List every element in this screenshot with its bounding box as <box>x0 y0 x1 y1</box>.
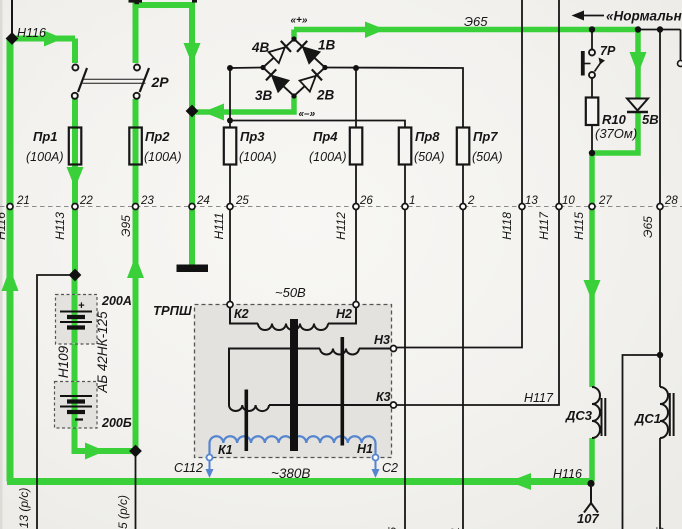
svg-text:Н116: Н116 <box>17 26 46 40</box>
arrow left on minus link <box>203 104 224 121</box>
node 25 <box>227 204 233 210</box>
svg-text:200Б: 200Б <box>101 416 132 430</box>
wire N116 top vertical (black) <box>11 0 13 39</box>
arrow down on 5V branch <box>630 52 647 74</box>
top cut component 2 <box>192 0 197 3</box>
junction dot 7P top <box>589 26 595 32</box>
wire N116 left vertical (green) <box>7 39 14 482</box>
svg-text:13: 13 <box>525 195 538 207</box>
svg-text:2Р: 2Р <box>151 74 170 90</box>
fuse Pr3 <box>224 128 237 165</box>
svg-text:Н116: Н116 <box>553 467 582 481</box>
svg-text:Пр3: Пр3 <box>240 129 265 144</box>
node 26 <box>353 204 359 210</box>
wire N118 vertical <box>397 0 523 348</box>
svg-text:С2: С2 <box>382 461 398 475</box>
svg-text:21: 21 <box>16 195 30 207</box>
connector 107 <box>584 484 598 513</box>
svg-text:Н117: Н117 <box>524 391 554 405</box>
arrow up on E95 <box>127 256 144 278</box>
node 10 <box>556 204 562 210</box>
svg-text:Пр2: Пр2 <box>145 129 170 144</box>
junction diamond N116 top <box>6 32 19 45</box>
terminal N3 <box>391 346 397 352</box>
bridge vertex dots <box>291 36 296 41</box>
resistor R10 <box>586 98 599 126</box>
svg-text:«+»: «+» <box>291 15 308 26</box>
wire right edge stub <box>680 30 682 61</box>
node row dashed line <box>0 206 682 208</box>
arrow down on bus x192 <box>184 43 201 64</box>
wire node1 vertical <box>404 165 406 529</box>
winding K3 <box>229 405 391 411</box>
switch 2P pole2 contact bottom <box>134 93 140 99</box>
button 7P contact top <box>589 50 595 56</box>
junction dot Pr4 top <box>353 65 359 71</box>
button 7P contact bottom <box>589 72 595 78</box>
node 2 <box>460 204 466 210</box>
transformer TRPSh box <box>195 305 392 458</box>
wire N115 vertical (green) <box>589 153 595 387</box>
switch 2P link <box>83 78 146 80</box>
svg-text:Н113: Н113 <box>53 212 67 240</box>
svg-text:Н1: Н1 <box>357 442 373 456</box>
battery wire through box A (green) <box>72 295 78 344</box>
node 1 <box>402 204 408 210</box>
wire N112 <box>355 165 357 303</box>
node 13 <box>519 204 525 210</box>
wire E65 horizontal (green) <box>294 27 640 33</box>
svg-text:К2: К2 <box>234 307 249 321</box>
arrow down below Pr1 <box>67 167 84 188</box>
wire bridge AC right <box>325 68 463 128</box>
fuse Pr4 <box>350 128 363 165</box>
wire Pr8 top branch <box>230 121 405 128</box>
junction dot bottom bus right <box>587 480 594 487</box>
diode 4V <box>269 41 291 63</box>
terminal N1 <box>373 455 379 461</box>
svg-text:«Нормально: «Нормально <box>606 9 682 24</box>
battery wire through box B (green) <box>72 382 78 428</box>
wire battery branch (green) <box>72 277 78 311</box>
switch 2P pole2 contact top <box>134 65 140 71</box>
wire DS1 branch <box>623 355 661 529</box>
junction diamond battery top <box>69 269 82 282</box>
wire E95 below junction <box>135 451 137 529</box>
battery cells B <box>60 396 92 420</box>
svg-text:28: 28 <box>664 195 678 207</box>
svg-text:~380В: ~380В <box>271 466 310 481</box>
fuse Pr1 <box>69 128 82 165</box>
node 24 <box>189 204 195 210</box>
svg-text:2В: 2В <box>316 88 335 103</box>
wire E65 right black <box>638 29 681 31</box>
junction dot Pr8 branch <box>227 118 233 124</box>
svg-text:24: 24 <box>196 195 210 207</box>
svg-text:К1: К1 <box>218 443 233 457</box>
svg-text:Э65: Э65 <box>464 14 488 29</box>
svg-text:7Р: 7Р <box>600 44 616 58</box>
svg-text:(100А): (100А) <box>309 150 347 164</box>
svg-text:26: 26 <box>359 195 373 207</box>
arrow down on N115 <box>584 280 601 301</box>
wire plus stub (green) <box>291 30 297 40</box>
svg-text:Э95: Э95 <box>119 215 133 237</box>
arrow C2 blue <box>375 461 377 470</box>
junction dot R10 bottom <box>589 150 595 156</box>
svg-text:Н109: Н109 <box>56 345 71 378</box>
svg-text:2: 2 <box>467 195 475 207</box>
wire Pr4 top <box>355 68 357 128</box>
arrow left on bottom bus <box>509 473 531 490</box>
ground chassis bar <box>177 265 209 273</box>
core bar main <box>290 319 298 451</box>
battery cells A <box>60 312 92 328</box>
button 7P blade <box>595 60 603 72</box>
core bar left <box>245 390 249 452</box>
svg-text:Пр8: Пр8 <box>415 129 440 144</box>
svg-text:Н117: Н117 <box>537 211 551 240</box>
svg-text:~50В: ~50В <box>275 285 306 300</box>
wire 7P R10 chain <box>591 30 593 50</box>
arrow up on left N116 <box>2 268 19 291</box>
wire battery bottom (green) <box>75 414 136 451</box>
junction dot DS1 branch <box>657 352 663 358</box>
diode 1V <box>297 41 319 63</box>
wire E95 vertical (green) <box>133 99 139 451</box>
wire 5V below diode (green) <box>592 113 638 154</box>
svg-text:5В: 5В <box>642 112 659 127</box>
svg-text:Н2: Н2 <box>336 307 352 321</box>
switch 2P pole1 contact bottom <box>72 93 78 99</box>
wire Pr1 branch (green) <box>72 99 78 277</box>
switch 2P pole1 contact top <box>72 65 78 71</box>
svg-text:ДС1: ДС1 <box>634 411 661 426</box>
junction dot AC left <box>227 65 233 71</box>
junction dot E65 node28 <box>657 26 663 32</box>
svg-text:ТРПШ: ТРПШ <box>153 303 192 318</box>
svg-text:25: 25 <box>235 195 249 207</box>
svg-text:ДС3: ДС3 <box>565 408 593 423</box>
fuse Pr2 <box>129 128 142 165</box>
diode 2V <box>300 69 322 91</box>
node 28 <box>657 204 663 210</box>
wire 13rs horizontal <box>37 275 75 476</box>
node 21 <box>7 204 13 210</box>
inductor DS1 <box>660 387 674 438</box>
arrow C112 blue <box>209 461 211 470</box>
wire bottom green bus <box>7 478 592 485</box>
bridge frame <box>263 39 325 96</box>
svg-text:1: 1 <box>409 195 415 207</box>
terminal circle right edge <box>678 61 682 67</box>
svg-text:(37Ом): (37Ом) <box>595 126 637 141</box>
top cut component 1 <box>129 0 143 3</box>
svg-text:22: 22 <box>79 195 93 207</box>
terminal N2 <box>353 302 359 308</box>
terminal K2 <box>227 302 233 308</box>
svg-text:Н3: Н3 <box>374 333 390 347</box>
svg-text:(100А): (100А) <box>26 150 64 164</box>
node 22 <box>72 204 78 210</box>
switch 2P pole1 blade <box>78 68 87 92</box>
wire 13rs vertical bottom <box>36 476 38 529</box>
svg-text:+: + <box>78 300 85 312</box>
svg-text:(100А): (100А) <box>144 150 182 164</box>
arrow on N116 right <box>44 31 63 47</box>
junction dot 5V top <box>635 26 641 32</box>
svg-text:К3: К3 <box>376 390 391 404</box>
svg-text:Пр4: Пр4 <box>313 129 338 144</box>
terminal K1 <box>207 455 213 461</box>
svg-text:107: 107 <box>577 511 599 526</box>
fuse Pr8 <box>399 128 412 165</box>
wire 7P to R10 <box>591 78 593 98</box>
svg-text:(50А): (50А) <box>414 150 445 164</box>
wire 5V branch down (green) <box>635 30 641 100</box>
svg-text:Пр7: Пр7 <box>473 129 498 144</box>
node 27 <box>589 204 595 210</box>
svg-text:(50А): (50А) <box>472 150 503 164</box>
svg-text:1В: 1В <box>318 38 336 53</box>
arrow right on E65 <box>365 22 385 39</box>
svg-text:Н116: Н116 <box>0 212 8 240</box>
wire minus link (green) <box>192 96 294 112</box>
svg-text:13 (р/с): 13 (р/с) <box>17 488 31 529</box>
svg-text:23: 23 <box>140 195 154 207</box>
svg-text:R10: R10 <box>602 112 627 127</box>
svg-text:200А: 200А <box>101 294 132 308</box>
inductor DS3 <box>592 387 605 438</box>
wire R10 bottom <box>591 125 593 153</box>
svg-text:4В: 4В <box>251 40 270 55</box>
svg-text:АБ 42НК-125: АБ 42НК-125 <box>95 311 110 394</box>
svg-text:Пр1: Пр1 <box>33 129 58 144</box>
winding N3 <box>229 349 391 406</box>
diode 5V <box>627 99 648 113</box>
svg-text:5 (р/с): 5 (р/с) <box>116 495 130 529</box>
core bar mid <box>341 337 345 446</box>
wire N111 <box>229 165 231 303</box>
wire top bus (green) <box>136 5 193 265</box>
battery box B <box>55 382 98 429</box>
diode 3V <box>266 69 288 91</box>
battery box A <box>56 295 98 345</box>
svg-text:Э65: Э65 <box>641 216 655 238</box>
wire battery mid (green) <box>72 330 78 395</box>
winding K2-N2 <box>230 308 356 331</box>
svg-text:Н111: Н111 <box>212 213 226 240</box>
junction diamond E95 bottom <box>129 445 142 458</box>
fuse Pr7 <box>457 128 470 165</box>
svg-text:Н115: Н115 <box>572 212 586 240</box>
wire N117 vertical <box>397 0 560 405</box>
wire E65 vertical node28 <box>659 30 661 388</box>
junction diamond minus link <box>186 105 199 118</box>
wire DS3 to bottom bus (green) <box>589 438 595 482</box>
svg-text:Н112: Н112 <box>334 212 348 240</box>
wire DS1 bottom <box>659 438 661 529</box>
label Normalno arrow <box>582 15 604 17</box>
wire N116 horizontal top (green) <box>10 36 75 42</box>
svg-text:«–»: «–» <box>299 109 316 120</box>
switch 2P pole2 blade <box>140 68 149 92</box>
node 23 <box>133 204 139 210</box>
wire node2 vertical <box>462 165 464 529</box>
wire switch feed left (green) <box>72 39 78 64</box>
svg-text:Н118: Н118 <box>500 212 514 240</box>
arrow right battery out <box>85 443 105 460</box>
svg-text:(100А): (100А) <box>239 150 277 164</box>
wire bridge AC left <box>230 68 263 128</box>
button 7P plunger <box>581 51 585 76</box>
svg-text:10: 10 <box>562 195 575 207</box>
terminal K3 <box>391 402 397 408</box>
svg-text:27: 27 <box>598 195 612 207</box>
winding K1-N1 blue <box>210 436 376 455</box>
svg-text:С112: С112 <box>174 461 203 475</box>
svg-text:3В: 3В <box>255 88 273 103</box>
